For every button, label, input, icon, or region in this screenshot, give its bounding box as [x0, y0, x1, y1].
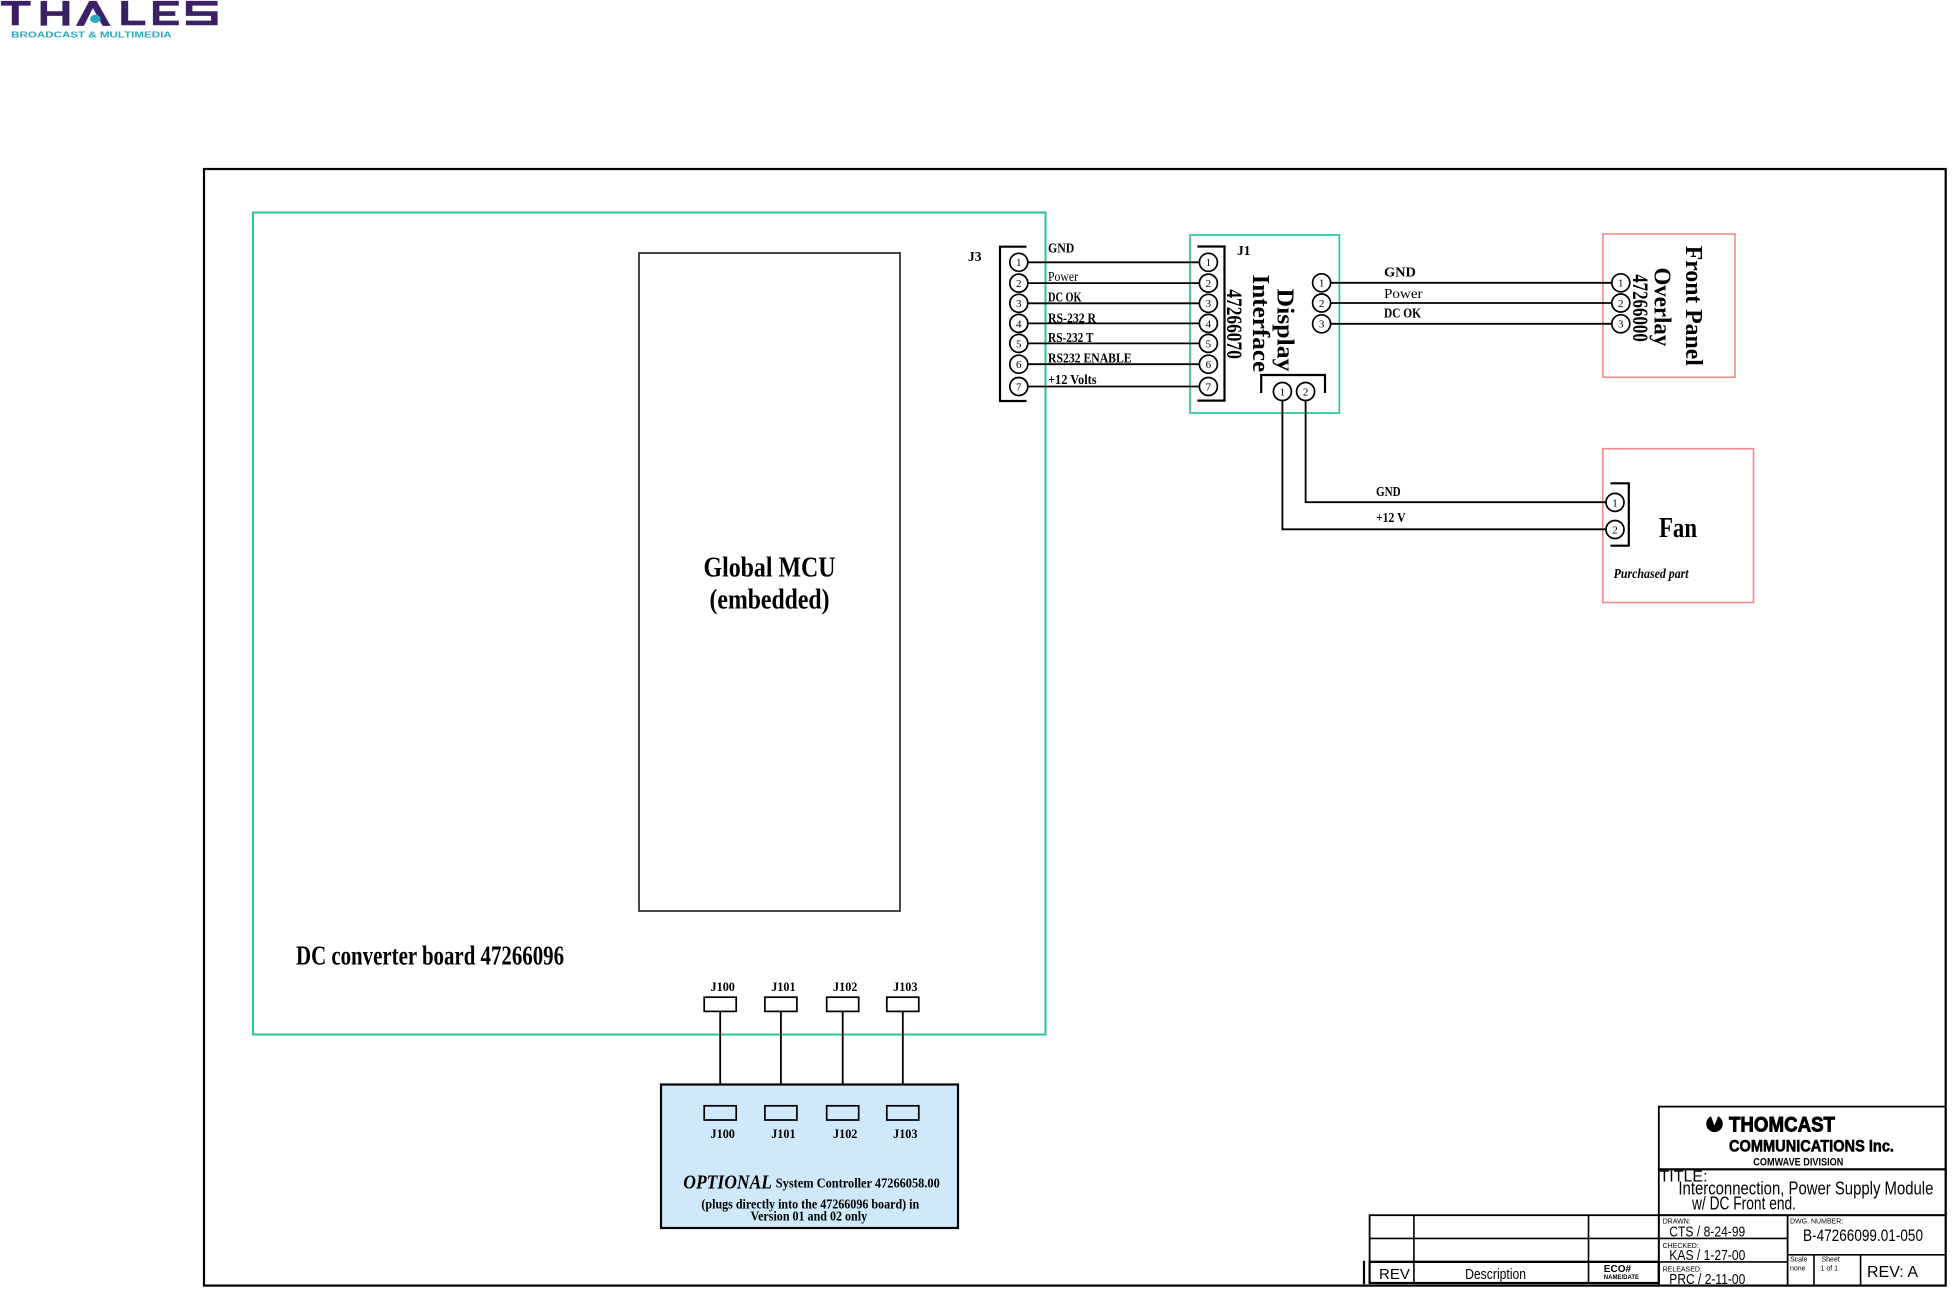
svg-text:2: 2 — [1303, 386, 1309, 398]
svg-text:47266000: 47266000 — [1628, 274, 1653, 342]
svg-text:6: 6 — [1016, 359, 1022, 371]
svg-text:Scale: Scale — [1790, 1257, 1808, 1264]
svg-text:1: 1 — [1206, 257, 1212, 269]
svg-text:J3: J3 — [968, 249, 982, 264]
svg-text:THOMCAST: THOMCAST — [1729, 1113, 1835, 1136]
svg-text:4: 4 — [1016, 318, 1022, 330]
svg-text:Fan: Fan — [1659, 513, 1697, 544]
svg-text:5: 5 — [1016, 338, 1022, 350]
svg-text:3: 3 — [1618, 319, 1624, 331]
svg-text:J102: J102 — [833, 1126, 857, 1141]
svg-text:(embedded): (embedded) — [710, 584, 830, 616]
svg-text:1: 1 — [1280, 386, 1286, 398]
svg-text:1: 1 — [1612, 497, 1618, 509]
svg-text:J101: J101 — [771, 979, 795, 994]
svg-text:RS232 ENABLE: RS232 ENABLE — [1048, 351, 1132, 366]
svg-text:6: 6 — [1206, 359, 1212, 371]
svg-text:PRC / 2-11-00: PRC / 2-11-00 — [1669, 1271, 1745, 1288]
svg-text:DWG. NUMBER:: DWG. NUMBER: — [1790, 1219, 1843, 1226]
svg-text:none: none — [1790, 1266, 1806, 1273]
svg-text:7: 7 — [1206, 381, 1212, 393]
svg-text:Power: Power — [1048, 270, 1078, 285]
svg-text:Purchased part: Purchased part — [1614, 566, 1690, 581]
svg-text:Front Panel: Front Panel — [1680, 246, 1706, 366]
svg-text:2: 2 — [1206, 278, 1212, 290]
svg-text:Interface: Interface — [1247, 275, 1273, 373]
svg-text:+12 Volts: +12 Volts — [1048, 373, 1097, 388]
svg-text:ECO#: ECO# — [1604, 1264, 1632, 1275]
svg-text:1 of 1: 1 of 1 — [1821, 1266, 1839, 1273]
svg-text:BROADCAST & MULTIMEDIA: BROADCAST & MULTIMEDIA — [11, 30, 172, 40]
svg-text:Version 01 and 02 only: Version 01 and 02 only — [751, 1209, 868, 1224]
svg-text:DC OK: DC OK — [1384, 307, 1421, 322]
svg-text:J100: J100 — [711, 1126, 735, 1141]
svg-text:J101: J101 — [771, 1126, 795, 1141]
svg-text:2: 2 — [1016, 278, 1022, 290]
svg-text:w/ DC Front end.: w/ DC Front end. — [1691, 1194, 1796, 1214]
svg-text:1: 1 — [1618, 278, 1624, 290]
svg-text:REV: REV — [1379, 1266, 1410, 1283]
svg-text:GND: GND — [1384, 266, 1416, 281]
svg-text:RS-232 T: RS-232 T — [1048, 331, 1094, 346]
svg-text:J100: J100 — [711, 979, 735, 994]
svg-text:1: 1 — [1016, 257, 1022, 269]
svg-text:System Controller 47266058.00: System Controller 47266058.00 — [776, 1177, 940, 1192]
svg-text:KAS / 1-27-00: KAS / 1-27-00 — [1669, 1247, 1745, 1264]
svg-text:Display: Display — [1272, 289, 1298, 372]
svg-text:2: 2 — [1319, 298, 1325, 310]
svg-text:COMWAVE DIVISION: COMWAVE DIVISION — [1753, 1157, 1843, 1169]
svg-text:DC OK: DC OK — [1048, 290, 1082, 305]
svg-text:OPTIONAL: OPTIONAL — [683, 1171, 772, 1193]
svg-text:7: 7 — [1016, 381, 1022, 393]
svg-text:Global MCU: Global MCU — [704, 552, 836, 584]
svg-text:CTS / 8-24-99: CTS / 8-24-99 — [1669, 1224, 1745, 1241]
svg-text:5: 5 — [1206, 338, 1212, 350]
svg-text:J103: J103 — [893, 1126, 918, 1141]
svg-text:REV: A: REV: A — [1867, 1264, 1918, 1281]
svg-text:GND: GND — [1048, 242, 1074, 257]
svg-text:47266070: 47266070 — [1222, 289, 1247, 359]
svg-text:3: 3 — [1206, 298, 1212, 310]
svg-text:Sheet: Sheet — [1822, 1257, 1840, 1264]
svg-text:GND: GND — [1376, 485, 1401, 500]
svg-text:J102: J102 — [833, 979, 857, 994]
svg-text:3: 3 — [1319, 319, 1325, 331]
svg-text:1: 1 — [1319, 278, 1325, 290]
svg-text:3: 3 — [1016, 298, 1022, 310]
svg-text:DC converter board 47266096: DC converter board 47266096 — [296, 941, 564, 971]
svg-text:B-47266099.01-050: B-47266099.01-050 — [1803, 1226, 1923, 1245]
svg-text:NAME/DATE: NAME/DATE — [1604, 1275, 1639, 1281]
svg-text:Description: Description — [1465, 1266, 1526, 1283]
svg-text:Power: Power — [1384, 287, 1423, 302]
svg-text:J103: J103 — [893, 979, 918, 994]
svg-text:COMMUNICATIONS Inc.: COMMUNICATIONS Inc. — [1729, 1137, 1894, 1156]
svg-text:2: 2 — [1612, 524, 1618, 536]
svg-text:RS-232 R: RS-232 R — [1048, 311, 1097, 326]
svg-text:4: 4 — [1206, 318, 1212, 330]
svg-text:+12 V: +12 V — [1376, 511, 1406, 526]
svg-text:2: 2 — [1618, 298, 1624, 310]
svg-text:J1: J1 — [1237, 243, 1251, 258]
